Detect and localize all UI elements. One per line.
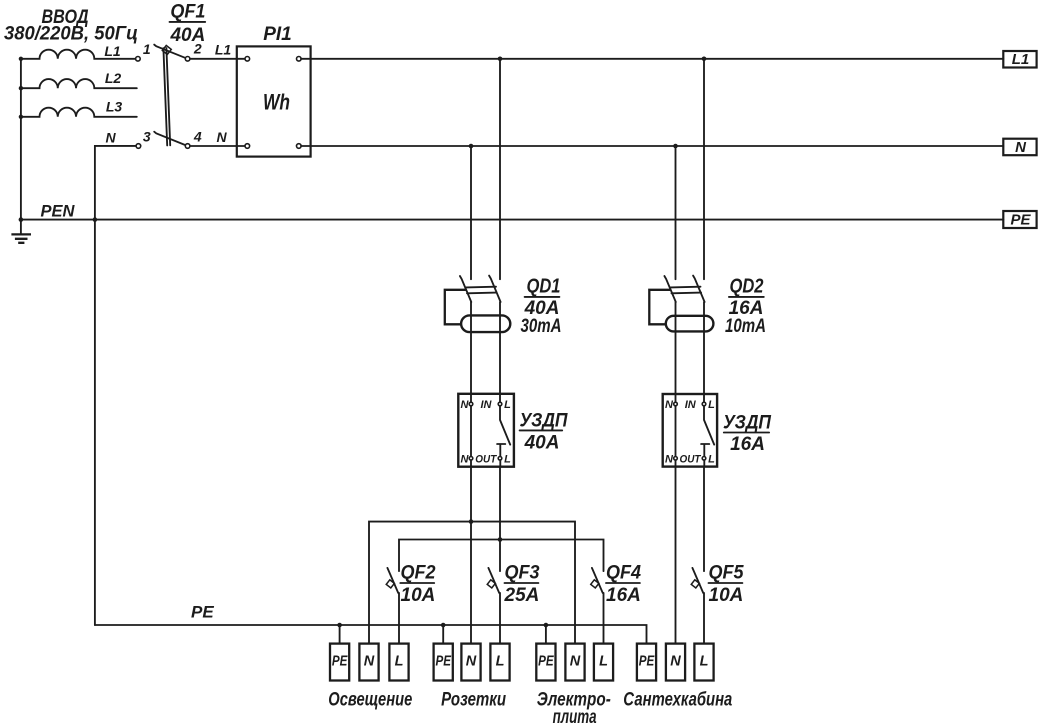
wire QF1 pin2 to PI1 — [190, 58, 247, 60]
inductor phase L3 — [21, 108, 137, 117]
svg-text:L: L — [708, 453, 715, 465]
wire bus N — [301, 145, 1003, 147]
terminal PE group3 — [536, 644, 555, 681]
svg-text:L: L — [395, 654, 404, 670]
svg-text:QF3: QF3 — [505, 563, 540, 584]
svg-text:L1: L1 — [215, 42, 232, 58]
terminal N group4 — [666, 644, 685, 681]
svg-text:плита: плита — [553, 707, 597, 727]
wire L drop to QD1 — [499, 59, 501, 279]
ground — [11, 234, 31, 242]
svg-text:N: N — [364, 654, 375, 670]
terminal PE group4 — [637, 644, 656, 681]
afdd УЗДП2 box — [663, 394, 717, 467]
breaker QF1 pole 1-2 lever — [154, 45, 187, 59]
wire PE stubs — [340, 625, 546, 644]
breaker QF1 linkage — [163, 48, 170, 146]
svg-text:10А: 10А — [709, 585, 744, 606]
svg-text:L: L — [700, 654, 709, 670]
svg-text:N: N — [466, 654, 477, 670]
svg-text:L1: L1 — [104, 43, 121, 59]
breaker QF1 pole 3-4 lever — [154, 132, 187, 146]
svg-text:10mA: 10mA — [725, 316, 766, 337]
svg-text:L: L — [504, 399, 511, 411]
svg-text:IN: IN — [481, 399, 493, 411]
wire bus PEN — [21, 219, 1003, 221]
svg-text:QF5: QF5 — [709, 563, 744, 584]
svg-text:N: N — [1015, 139, 1027, 156]
rcd QD2 linkage — [671, 287, 701, 294]
afdd УЗДП2 pins — [674, 402, 678, 406]
svg-text:L2: L2 — [105, 70, 122, 86]
breaker QF3 — [488, 568, 499, 593]
terminal N group2 — [461, 644, 480, 681]
node L1 bus tap QD2 — [702, 57, 707, 62]
breaker QF1 flag — [162, 45, 171, 54]
svg-text:40А: 40А — [524, 433, 560, 454]
svg-text:PI1: PI1 — [263, 24, 292, 45]
node N rail junction — [469, 519, 474, 524]
terminal PE group1 — [330, 644, 349, 681]
terminal box N — [1003, 139, 1036, 156]
inductor phase L2 — [21, 79, 137, 88]
svg-text:IN: IN — [685, 399, 697, 411]
wire N drop to QD2 — [675, 146, 677, 279]
svg-text:Освещение: Освещение — [328, 690, 412, 711]
svg-text:16А: 16А — [730, 434, 765, 455]
node PEN junction — [93, 217, 98, 222]
svg-text:N: N — [670, 654, 681, 670]
svg-text:QF4: QF4 — [606, 563, 641, 584]
node L rail junction — [498, 537, 503, 542]
svg-text:QD1: QD1 — [527, 275, 561, 297]
svg-text:PE: PE — [435, 654, 452, 670]
wire L2 down — [499, 467, 501, 571]
breaker QF5 — [692, 568, 703, 593]
terminal N group3 — [565, 644, 584, 681]
afdd УЗДП1 pins — [469, 402, 473, 406]
terminal PE group2 — [434, 644, 453, 681]
svg-text:OUT: OUT — [680, 453, 702, 465]
wire L4 down — [703, 467, 705, 571]
svg-text:N: N — [105, 129, 116, 145]
svg-text:Wh: Wh — [263, 90, 290, 115]
rcd QD1 levers — [460, 276, 471, 302]
svg-text:N: N — [665, 453, 674, 465]
terminal L group1 — [389, 644, 408, 681]
svg-text:QF1: QF1 — [170, 1, 205, 22]
inductor phase L1 — [21, 50, 136, 59]
svg-text:N: N — [461, 399, 470, 411]
terminal box PE — [1003, 211, 1036, 228]
svg-text:2: 2 — [193, 41, 202, 57]
svg-text:L: L — [708, 399, 715, 411]
svg-text:3: 3 — [143, 129, 151, 145]
meter PI1 terminals — [245, 57, 250, 62]
svg-text:Розетки: Розетки — [441, 690, 506, 711]
terminal box L1 — [1003, 51, 1036, 68]
rcd QD2 levers — [664, 276, 675, 302]
breaker QF4 — [592, 568, 603, 593]
wire N branch rail — [369, 522, 575, 644]
svg-text:N: N — [461, 453, 470, 465]
afdd УЗДП2 internal N wire — [675, 394, 677, 467]
svg-text:10А: 10А — [401, 585, 436, 606]
node PE rail junctions — [337, 623, 342, 628]
svg-text:PE: PE — [332, 654, 349, 670]
node N bus tap QD1 — [469, 144, 474, 149]
wire N2 down — [470, 467, 472, 644]
svg-text:УЗДП: УЗДП — [723, 413, 771, 434]
svg-text:QD2: QD2 — [730, 275, 764, 297]
svg-text:PE: PE — [191, 603, 214, 622]
meter PI1 box — [237, 46, 311, 156]
rcd QD1 linkage — [466, 287, 496, 294]
wire N drop to QD1 — [470, 146, 472, 279]
breaker QF2 — [387, 568, 398, 593]
terminal L group2 — [490, 644, 509, 681]
wire L branch rail — [399, 540, 604, 572]
terminal L group4 — [694, 644, 713, 681]
node N bus tap QD2 — [673, 144, 678, 149]
node L1 bus tap QD1 — [498, 57, 503, 62]
svg-text:PEN: PEN — [41, 203, 76, 221]
terminal N group1 — [359, 644, 378, 681]
rcd QD2 sensor oval — [666, 316, 714, 332]
wire QD1 outputs — [471, 302, 500, 394]
rcd QD1 test box — [445, 290, 466, 325]
rcd QD2 test box — [649, 290, 670, 325]
wire left supply bus — [20, 59, 22, 234]
svg-text:16А: 16А — [606, 585, 641, 606]
wire PE rail — [95, 625, 647, 644]
svg-text:Сантехкабина: Сантехкабина — [623, 690, 732, 711]
svg-text:N: N — [570, 654, 581, 670]
wire N4 down — [675, 467, 677, 644]
svg-text:4: 4 — [193, 129, 202, 145]
afdd УЗДП1 internal N wire — [470, 394, 472, 467]
afdd УЗДП1 box — [458, 394, 514, 467]
svg-text:PE: PE — [1010, 212, 1031, 229]
svg-text:L: L — [504, 453, 511, 465]
svg-text:1: 1 — [143, 41, 151, 57]
svg-text:N: N — [216, 129, 227, 145]
svg-text:25А: 25А — [504, 585, 540, 606]
afdd УЗДП2 internal L switch — [701, 394, 714, 467]
terminal L group3 — [594, 644, 613, 681]
svg-text:L: L — [599, 654, 608, 670]
svg-text:PE: PE — [538, 654, 555, 670]
svg-text:L: L — [496, 654, 505, 670]
svg-text:380/220В, 50Гц: 380/220В, 50Гц — [4, 24, 138, 45]
node supply bus taps — [19, 57, 23, 61]
svg-text:OUT: OUT — [475, 453, 497, 465]
wire N from PEN — [95, 146, 136, 625]
svg-text:N: N — [665, 399, 674, 411]
afdd УЗДП1 internal L switch — [497, 394, 510, 467]
rcd QD1 sensor oval — [461, 315, 510, 332]
svg-text:QF2: QF2 — [401, 563, 436, 584]
svg-text:L3: L3 — [106, 98, 123, 114]
svg-text:PE: PE — [639, 654, 656, 670]
svg-text:30mA: 30mA — [521, 316, 562, 337]
wire QF1 pin4 to PI1 — [190, 145, 247, 147]
svg-text:L1: L1 — [1012, 51, 1030, 68]
svg-text:УЗДП: УЗДП — [520, 411, 568, 432]
wire L drop to QD2 — [703, 59, 705, 279]
wire bus L1 — [301, 58, 1003, 60]
wire QD2 outputs — [676, 302, 705, 394]
